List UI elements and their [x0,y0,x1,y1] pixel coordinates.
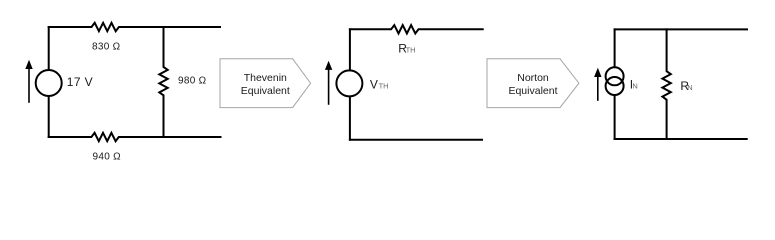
svg-text:V: V [370,77,378,91]
svg-text:980 Ω: 980 Ω [178,75,207,86]
svg-text:Thevenin: Thevenin [244,72,287,84]
svg-text:Equivalent: Equivalent [508,85,557,97]
svg-text:TH: TH [379,81,389,90]
svg-text:830 Ω: 830 Ω [92,41,121,52]
svg-text:940 Ω: 940 Ω [93,152,122,163]
svg-text:N: N [687,83,692,92]
svg-text:Equivalent: Equivalent [241,85,290,97]
svg-text:TH: TH [406,45,416,54]
svg-text:N: N [632,82,637,91]
svg-text:Norton: Norton [517,72,549,84]
svg-text:17 V: 17 V [67,75,93,89]
